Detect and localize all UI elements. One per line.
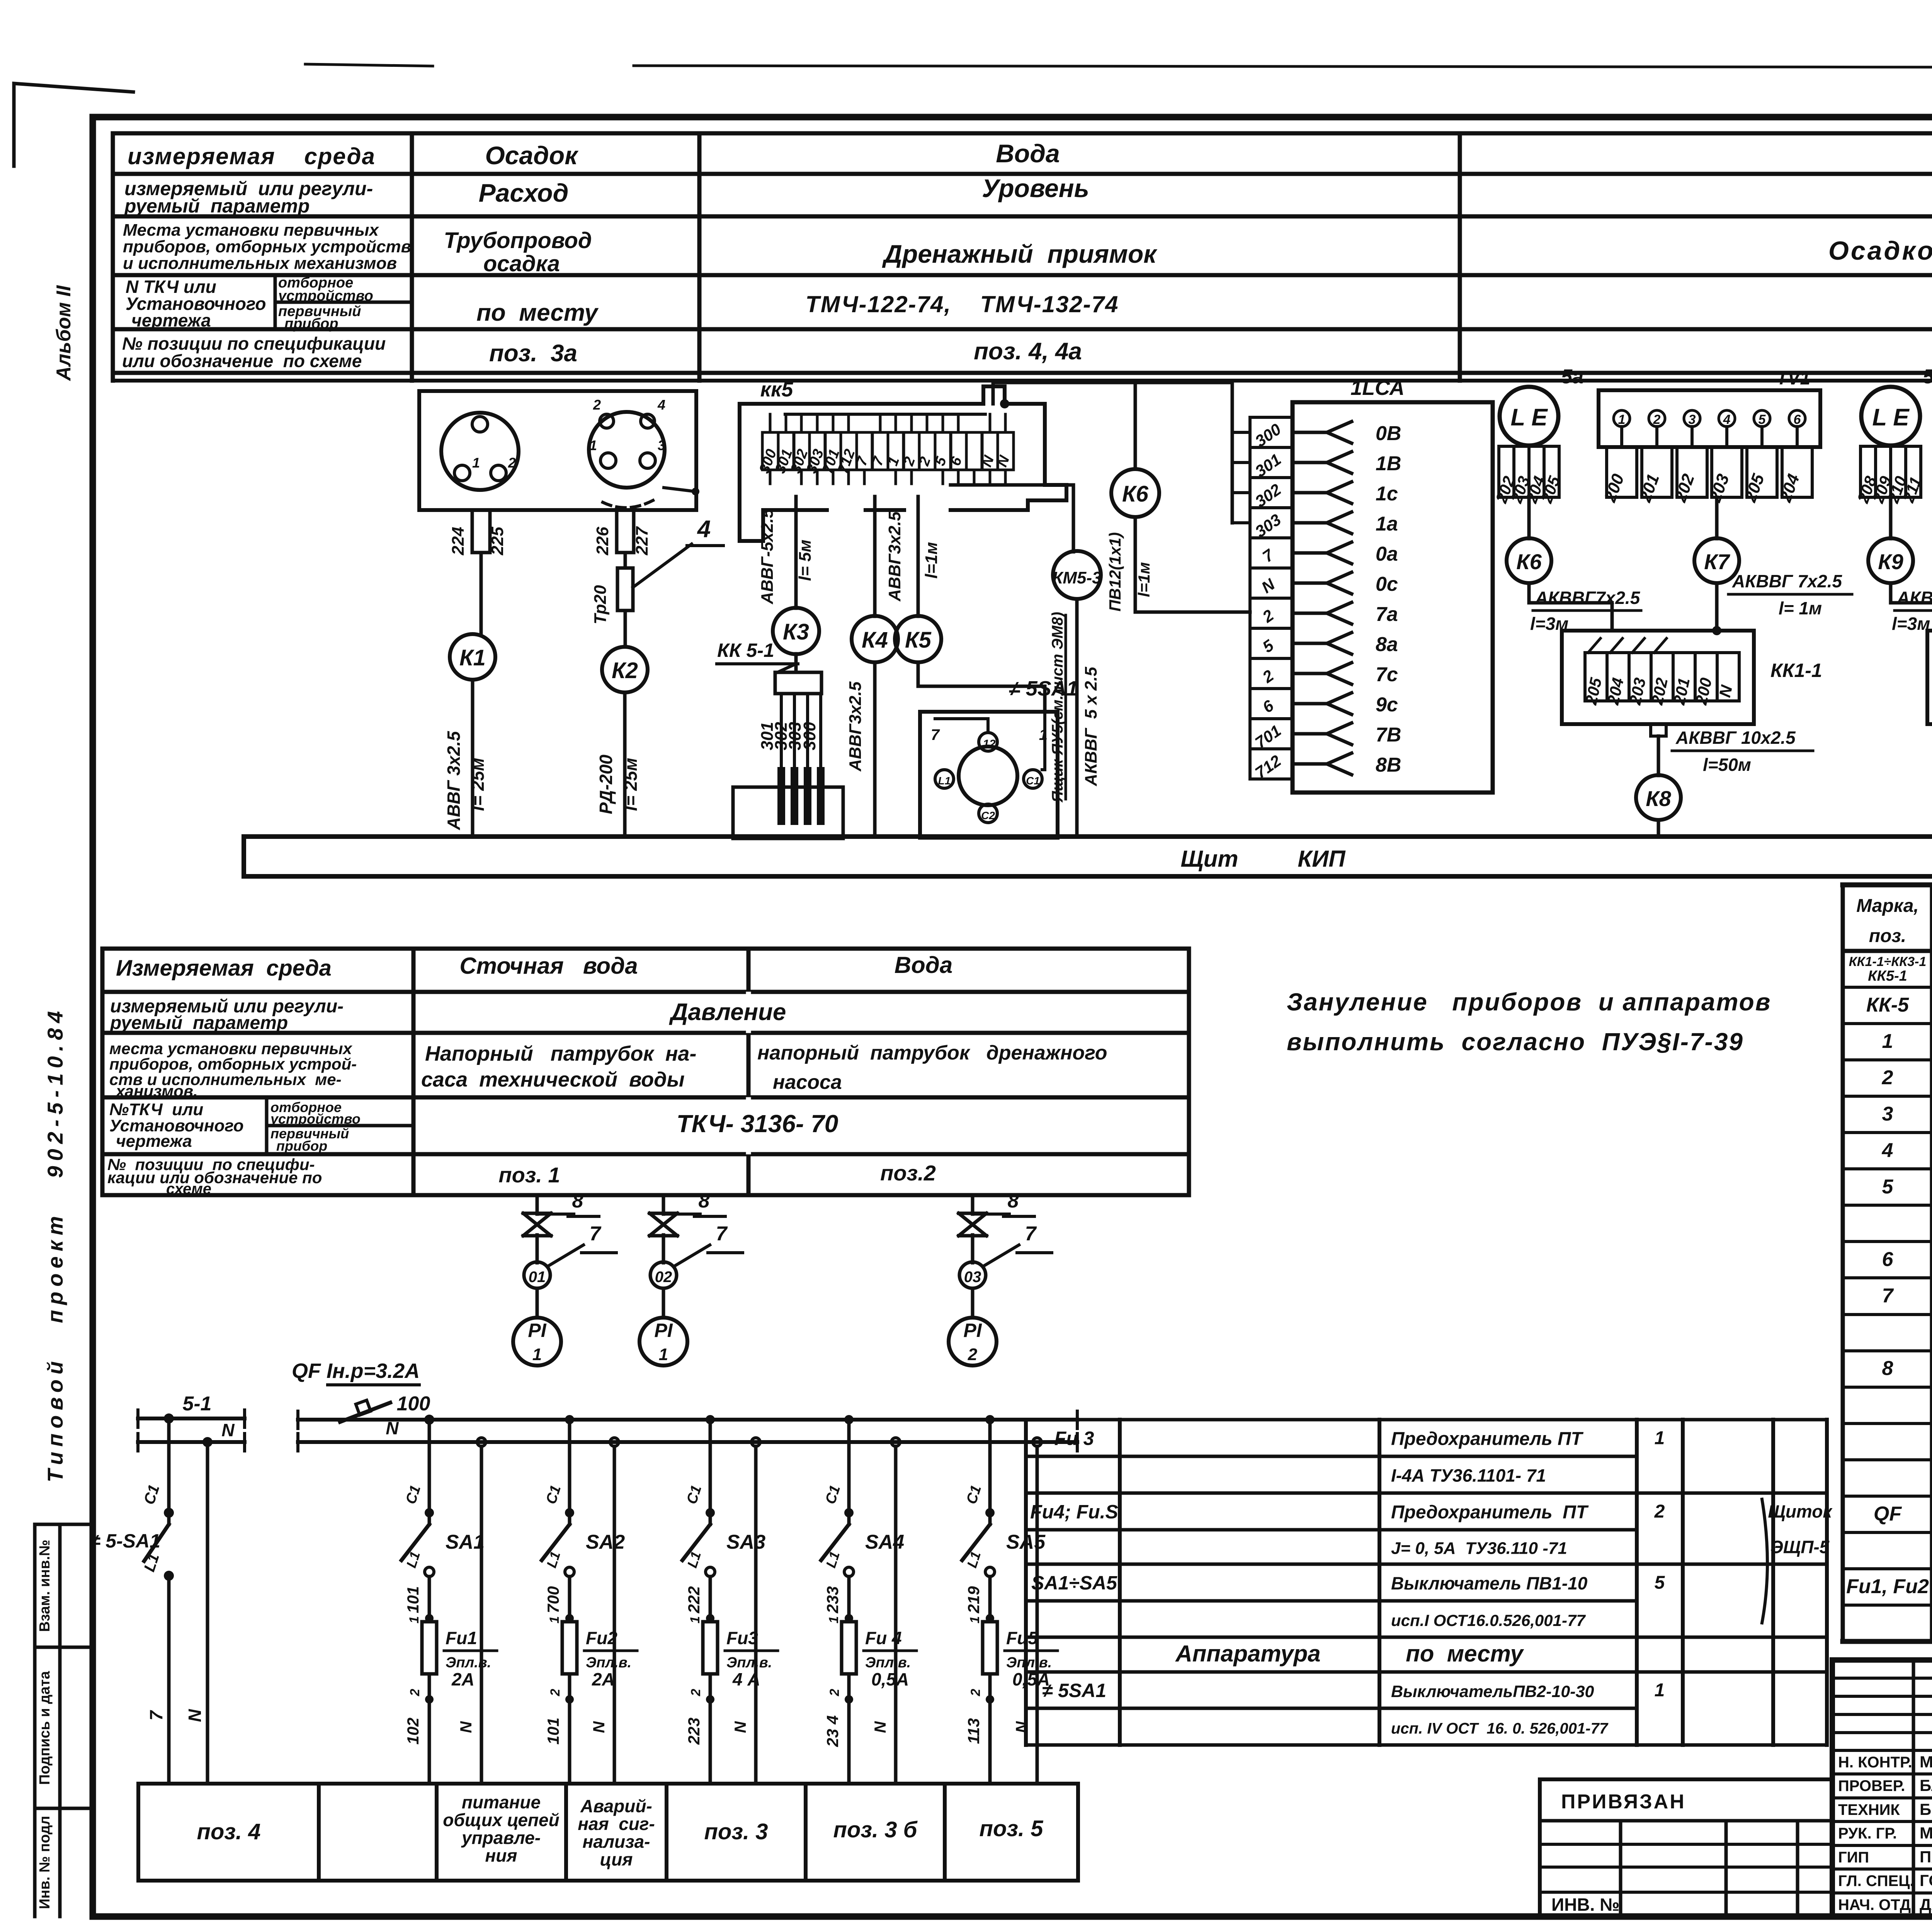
svg-text:N: N [457,1721,475,1733]
svg-text:АВВГ3х2.5: АВВГ3х2.5 [846,681,865,772]
sensor electrode block [733,787,843,838]
svg-text:1: 1 [589,437,597,453]
svg-text:222: 222 [685,1586,703,1614]
wire N drop 3 [752,1438,760,1446]
svg-text:БОКОВА: БОКОВА [1920,1800,1932,1818]
instrument PI 1 [639,1318,687,1366]
svg-text:4: 4 [697,516,711,543]
svg-text:МОСЕЕНКО: МОСЕЕНКО [1920,1824,1932,1842]
svg-text:АВВГ3х2.5: АВВГ3х2.5 [885,511,904,602]
svg-text:КК5-1: КК5-1 [1868,968,1907,984]
relay К6 [1507,538,1551,583]
svg-text:осадка: осадка [483,251,560,276]
svg-text:Напорный патрубок на-: Напорный патрубок на- [425,1042,696,1065]
svg-text:К1: К1 [459,645,486,670]
svg-text:4: 4 [1723,412,1731,427]
svg-text:Зануление приборов и аппара: Зануление приборов и аппаратов [1287,988,1771,1016]
wire КК1-1 to К8 [1657,736,1660,776]
svg-text:ДАНИЛОВ: ДАНИЛОВ [1920,1895,1932,1913]
svg-text:насоса: насоса [773,1071,842,1094]
svg-text:1а: 1а [1376,513,1398,535]
wire to Tr20 [624,553,627,568]
svg-text:1: 1 [1618,412,1626,427]
connector XP1 box [419,391,696,510]
wire N drop 5 [1033,1438,1041,1446]
svg-text:12: 12 [983,738,996,750]
wire connector XP2 dashed contour [603,500,653,508]
terminal strip under LE КК 2-1 [1861,446,1876,497]
wire К7 to КК1-1 [1715,583,1719,631]
svg-text:Fu1, Fu2: Fu1, Fu2 [1846,1575,1929,1598]
svg-text:6: 6 [1794,412,1801,427]
svg-text:Эпл.в.: Эпл.в. [586,1655,631,1671]
svg-text:Марка,: Марка, [1856,896,1919,916]
svg-text:кк5: кк5 [760,378,794,401]
svg-text:Выключатель ПВ1-10: Выключатель ПВ1-10 [1391,1573,1588,1594]
wire 226/227 stubs [615,510,619,553]
svg-text:ная сиг-: ная сиг- [578,1814,655,1834]
svg-text:МОСЕЕНКО: МОСЕЕНКО [1920,1753,1932,1771]
fuse Fu1 [422,1622,437,1674]
svg-text:1: 1 [968,1616,982,1624]
wire 1LCA trunk [1231,383,1234,523]
relay K3 [773,608,819,654]
svg-text:прибор: прибор [284,316,338,332]
svg-text:2: 2 [968,1345,978,1364]
svg-text:J= 0, 5А ТУ36.110 -71: J= 0, 5А ТУ36.110 -71 [1391,1539,1567,1558]
svg-text:Осадкоуплотнитель: Осадкоуплотнитель [1828,236,1932,265]
switch 5-SA1 feeder drop [167,1418,171,1509]
svg-text:общих цепей: общих цепей [443,1810,559,1830]
svg-text:Щит: Щит [1180,846,1238,872]
svg-text:по месту: по месту [1406,1641,1524,1667]
svg-text:5а: 5а [1923,366,1932,388]
svg-text:l= 1м: l= 1м [1779,598,1822,618]
svg-text:Сточная вода: Сточная вода [459,953,638,979]
svg-text:SА5: SА5 [1006,1531,1046,1553]
svg-text:1: 1 [827,1616,841,1624]
node panel Shchit KIP [244,837,1932,876]
node apparatus table [1026,1418,1637,1422]
svg-text:нализа-: нализа- [582,1832,650,1852]
relay К8 [1636,775,1681,820]
svg-text:ния: ния [485,1845,517,1866]
svg-text:Fu5: Fu5 [1006,1628,1038,1648]
svg-text:саса технической воды: саса технической воды [421,1068,685,1091]
wire to K2 [624,611,627,646]
terminal strip under LE КК1-1 [1499,446,1514,497]
svg-text:8: 8 [1008,1190,1019,1212]
relay K4 [852,616,898,662]
relay К9 [1868,538,1913,583]
svg-text:Осадок: Осадок [485,141,579,170]
svg-text:ПВ12(1х1): ПВ12(1х1) [1106,532,1124,611]
svg-text:ция: ция [600,1849,633,1869]
svg-text:1: 1 [1655,1428,1665,1449]
svg-text:7: 7 [716,1223,728,1245]
node sidebar stamp boxes [35,1523,93,1526]
svg-text:К3: К3 [783,619,809,645]
controller 1LCA terminals [1250,417,1293,447]
switch 5-SA1 blade [144,1524,169,1561]
svg-text:101: 101 [544,1718,562,1745]
svg-text:поз.2: поз.2 [880,1161,936,1185]
valve 03 drop [971,1195,975,1214]
svg-text:01: 01 [529,1269,546,1286]
svg-text:1: 1 [547,1616,562,1624]
wire K4 to panel [873,662,877,837]
instrument 03 [959,1262,986,1288]
svg-text:N: N [871,1721,889,1733]
svg-text:Предохранитель ПТ: Предохранитель ПТ [1391,1429,1583,1449]
svg-text:ПРОВЕР.: ПРОВЕР. [1838,1777,1905,1794]
svg-text:измеряемая среда: измеряемая среда [128,143,376,169]
node header table [113,131,1932,136]
valve 02 drop [662,1195,665,1214]
relay K1 [450,634,495,680]
svg-text:2А: 2А [451,1669,474,1689]
svg-text:7: 7 [931,726,940,743]
svg-text:Измеряемая среда: Измеряемая среда [116,956,332,981]
svg-text:Fu3: Fu3 [726,1628,758,1648]
instrument 01 [524,1262,550,1288]
svg-text:7с: 7с [1376,663,1398,686]
svg-text:схеме: схеме [166,1180,211,1197]
svg-text:К6: К6 [1516,549,1542,574]
wire K5 to switch 5SA1 [918,662,1045,712]
switch SА3 blade [682,1524,710,1560]
svg-text:9с: 9с [1376,694,1398,716]
switch SА3 drop [706,1415,715,1424]
svg-text:по месту: по месту [476,299,599,326]
svg-text:АВВГ 3х2.5: АВВГ 3х2.5 [444,731,464,830]
terminal box КК1-1 [1562,631,1754,724]
svg-text:Н. КОНТР.: Н. КОНТР. [1838,1754,1912,1771]
wire K1 to panel [471,680,474,837]
svg-text:ГИП: ГИП [1838,1849,1869,1866]
wire kk5 to KM5-3 [951,485,1073,552]
svg-text:исп.I ОСТ16.0.526,001-77: исп.I ОСТ16.0.526,001-77 [1391,1611,1586,1629]
switch SА4 blade [821,1524,849,1560]
wire K6 to 1LCA 7a [1135,517,1250,612]
svg-text:выполнить согласно ПУЭ§I-7-3: выполнить согласно ПУЭ§I-7-39 [1287,1028,1744,1056]
wire LE to К9 [1889,497,1893,539]
svg-text:поз. 3: поз. 3 [704,1819,768,1844]
svg-text:1LСА: 1LСА [1350,376,1405,400]
svg-text:Fu 3: Fu 3 [1054,1428,1094,1449]
instrument PI 1 [513,1318,561,1366]
wire TV to К7 [1715,497,1719,539]
svg-text:К2: К2 [612,658,638,683]
svg-text:ЭЩП-5: ЭЩП-5 [1770,1537,1830,1557]
svg-text:К9: К9 [1878,549,1903,574]
svg-text:N: N [185,1709,205,1722]
svg-text:напорный патрубок дренажног: напорный патрубок дренажного [757,1042,1107,1064]
switch 5SA1 rotor [959,747,1017,805]
svg-text:Эпл.в.: Эпл.в. [1006,1655,1052,1671]
svg-text:БАКШЕЕВА: БАКШЕЕВА [1920,1776,1932,1794]
svg-text:ТЕХНИК: ТЕХНИК [1838,1801,1900,1818]
svg-text:2: 2 [1882,1066,1893,1089]
breaker QF blade [340,1403,390,1422]
svg-text:226: 226 [593,527,612,556]
svg-text:кации или обозначение по: кации или обозначение по [107,1168,322,1187]
terminal block KK5 outline [740,386,1066,541]
svg-text:2: 2 [548,1689,563,1696]
svg-text:N: N [1012,1721,1031,1733]
relay K2 [602,647,648,692]
svg-text:КМ5-3: КМ5-3 [1052,568,1101,587]
wire KM5-3 to panel [1075,599,1079,837]
svg-text:l=1м: l=1м [922,542,941,579]
junction [202,1437,213,1447]
svg-text:КК-5: КК-5 [1866,994,1909,1016]
svg-text:8: 8 [699,1190,710,1212]
svg-text:l=1м: l=1м [1135,562,1153,597]
terminal box КК 2-1 [1927,631,1932,724]
svg-text:руемый параметр: руемый параметр [109,1013,288,1033]
svg-text:7: 7 [1882,1285,1894,1307]
svg-text:ханизмов.: ханизмов. [115,1082,198,1100]
svg-text:1: 1 [472,455,480,471]
wire N drop 2 [610,1438,619,1446]
switch SА5 drop [985,1415,995,1424]
svg-text:SА1: SА1 [446,1531,485,1553]
svg-text:Давление: Давление [669,999,786,1026]
svg-text:ГОЛЬЦМАН: ГОЛЬЦМАН [1920,1871,1932,1889]
switch SА1 drop [428,1420,431,1509]
svg-text:Места установки первичных: Места установки первичных [123,221,379,240]
svg-text:N: N [386,1418,399,1438]
svg-text:поз. 1: поз. 1 [498,1163,560,1187]
svg-text:Эпл.в.: Эпл.в. [446,1655,491,1671]
relay KM5-3 [1053,551,1101,599]
svg-text:Ящик ЯУ5(см.лист ЭМ8): Ящик ЯУ5(см.лист ЭМ8) [1049,612,1066,803]
relay К7 [1694,538,1739,583]
node privyazan block [1540,1777,1832,1781]
svg-text:8: 8 [1882,1357,1893,1380]
svg-text:АКВВГ7х2.5: АКВВГ7х2.5 [1535,588,1641,608]
svg-text:Трубопровод: Трубопровод [444,228,592,253]
wire [634,66,1932,68]
svg-text:Расход: Расход [479,179,569,207]
svg-text:Эпл.в.: Эпл.в. [726,1655,772,1671]
svg-text:Fu4; Fu.S: Fu4; Fu.S [1030,1501,1118,1523]
terminal box КК1-1 strip [1585,653,1607,701]
wire kk5 to K5 [917,497,920,616]
transmitter pins КК1-1 [1614,410,1630,427]
svg-text:Вода: Вода [996,139,1060,168]
svg-text:7: 7 [590,1223,602,1245]
svg-text:Щиток: Щиток [1768,1502,1833,1522]
svg-text:l= 25м: l= 25м [621,758,641,811]
svg-text:l= 25м: l= 25м [468,758,488,811]
svg-text:700: 700 [544,1586,562,1613]
svg-text:Типовой проект 902-5-10.84: Типовой проект 902-5-10.84 [43,1006,67,1483]
svg-text:1: 1 [407,1616,422,1624]
wire K2 to panel [623,692,627,837]
level sensor LE group КК1-1 [1500,387,1558,446]
svg-text:225: 225 [488,527,507,556]
svg-text:1: 1 [688,1616,702,1624]
svg-text:Тр20: Тр20 [591,585,610,624]
wire К6 to КК1-1 [1529,583,1612,631]
connector XP2 socket [589,412,665,488]
svg-text:5: 5 [1882,1175,1894,1198]
wire К9 to КК 2-1 [1891,583,1932,631]
instrument PI 2 [949,1318,997,1366]
svg-text:5-1: 5-1 [182,1393,211,1415]
svg-text:SА2: SА2 [586,1531,625,1553]
svg-text:устройство: устройство [277,288,373,304]
svg-text:0с: 0с [1376,573,1398,595]
svg-text:1В: 1В [1376,452,1401,475]
svg-text:4: 4 [1882,1139,1893,1162]
svg-text:6: 6 [1882,1248,1894,1270]
svg-text:7В: 7В [1376,724,1401,746]
svg-text:КК1-1: КК1-1 [1770,660,1822,681]
svg-text:2А: 2А [592,1669,615,1689]
svg-text:2: 2 [1654,1502,1665,1522]
svg-text:03: 03 [964,1269,981,1286]
node apparatus brace [1762,1499,1767,1623]
svg-text:С1: С1 [1026,775,1040,787]
svg-text:устройство: устройство [270,1111,361,1127]
svg-text:QF: QF [1874,1503,1902,1525]
node destination boxes [138,1782,1078,1786]
wire N drop 4 [891,1438,900,1446]
svg-text:102: 102 [404,1718,422,1745]
svg-text:1: 1 [659,1345,668,1364]
svg-text:233: 233 [823,1586,842,1614]
svg-text:≠ 5SА1: ≠ 5SА1 [1009,677,1078,700]
svg-text:I-4А ТУ36.1101- 71: I-4А ТУ36.1101- 71 [1391,1466,1546,1486]
svg-text:Iн.р=3.2А: Iн.р=3.2А [327,1359,420,1383]
switch SА2 drop [565,1415,574,1424]
wire KK5-1 to electrodes [780,694,783,769]
svg-text:К4: К4 [862,628,888,653]
svg-text:l=3м: l=3м [1892,614,1930,634]
svg-text:ГЛ. СПЕЦ.: ГЛ. СПЕЦ. [1838,1872,1914,1889]
svg-text:РУК. ГР.: РУК. ГР. [1838,1825,1897,1842]
fuse Fu 4 [842,1622,856,1674]
svg-text:К7: К7 [1704,549,1730,574]
svg-text:2: 2 [689,1689,703,1696]
wire N drop 1 [477,1438,486,1446]
svg-text:100: 100 [397,1393,430,1415]
svg-text:поз. 3а: поз. 3а [489,340,577,367]
svg-text:поз. 4, 4а: поз. 4, 4а [974,338,1082,365]
svg-text:Вода: Вода [895,952,952,978]
svg-text:ВыключательПВ2-10-30: ВыключательПВ2-10-30 [1391,1682,1594,1701]
wire to K6 relay [1134,383,1137,469]
svg-text:АКВВГ 5 х 2.5: АКВВГ 5 х 2.5 [1082,667,1100,786]
svg-text:227: 227 [633,526,651,556]
svg-text:К5: К5 [905,628,932,653]
terminal box KK5-1 [775,672,821,694]
svg-text:l= 5м: l= 5м [796,539,815,581]
wire N to poz4 [206,1442,209,1784]
switch SА5 blade [962,1524,990,1560]
svg-text:ТМЧ-122-74, ТМЧ-132-74: ТМЧ-122-74, ТМЧ-132-74 [805,291,1119,317]
svg-text:РI: РI [963,1320,982,1341]
svg-text:1: 1 [1655,1680,1665,1701]
svg-text:питание: питание [462,1792,541,1812]
svg-text:0,5А: 0,5А [1012,1669,1050,1689]
svg-text:SА4: SА4 [865,1531,904,1553]
switch SА2 blade [542,1524,570,1560]
wire kk5 to K4 [873,497,877,616]
controller 1LCA box [1293,402,1493,793]
svg-text:чертежа: чертежа [116,1132,192,1151]
svg-text:Уровень: Уровень [982,174,1089,202]
svg-text:1: 1 [1882,1030,1893,1053]
svg-text:5а: 5а [1561,366,1583,388]
fuse Fu2 [562,1622,577,1674]
svg-text:РI: РI [528,1320,546,1341]
svg-text:113: 113 [964,1718,983,1744]
fuse Fu5 [983,1622,997,1674]
svg-text:Взам. инв.№: Взам. инв.№ [37,1540,53,1632]
svg-text:300: 300 [800,722,819,750]
svg-text:≠ 5SА1: ≠ 5SА1 [1042,1680,1106,1701]
svg-text:8: 8 [572,1190,583,1212]
svg-text:КК 5-1: КК 5-1 [717,639,774,661]
svg-text:223: 223 [685,1718,703,1745]
svg-text:2: 2 [593,397,601,413]
svg-text:101: 101 [404,1586,422,1613]
svg-text:SА3: SА3 [726,1531,765,1553]
svg-text:РI: РI [654,1320,673,1341]
svg-text:2: 2 [508,455,516,471]
wire to poz4 [167,1576,171,1784]
svg-text:ТКЧ- 3136- 70: ТКЧ- 3136- 70 [677,1110,838,1138]
node title block [1832,1660,1932,1917]
svg-text:7а: 7а [1376,603,1398,626]
transmitter box TV КК1-1 [1599,390,1820,447]
svg-text:Fu1: Fu1 [446,1628,477,1648]
svg-text:0а: 0а [1376,543,1398,565]
svg-text:АКВВГ7х2.5: АКВВГ7х2.5 [1896,588,1932,608]
svg-text:7: 7 [146,1710,166,1721]
svg-text:КИП: КИП [1298,846,1346,872]
svg-text:АКВВГ 10х2.5: АКВВГ 10х2.5 [1675,728,1796,748]
svg-text:Подпись и дата: Подпись и дата [37,1671,53,1785]
svg-text:прибор: прибор [276,1138,327,1154]
svg-text:3: 3 [1882,1103,1893,1125]
svg-text:≠ 5-SА1: ≠ 5-SА1 [90,1530,160,1552]
svg-text:l=50м: l=50м [1703,755,1751,775]
svg-text:224: 224 [449,527,468,555]
svg-text:чертежа: чертежа [131,310,211,330]
wire inside 5SA1 [1042,712,1045,770]
svg-text:L Е: L Е [1510,404,1548,431]
svg-text:РД-200: РД-200 [596,754,616,814]
svg-text:поз. 3 б: поз. 3 б [833,1817,918,1842]
svg-text:7: 7 [1025,1223,1037,1245]
svg-text:АКВВГ 7х2.5: АКВВГ 7х2.5 [1732,571,1842,591]
svg-text:Дренажный приямок: Дренажный приямок [882,240,1158,268]
svg-text:руемый параметр: руемый параметр [124,195,310,217]
svg-text:приборов, отборных устройств: приборов, отборных устройств [123,237,411,256]
svg-text:8а: 8а [1376,633,1398,656]
svg-text:3: 3 [1689,412,1696,427]
wire kk5 to 1LCA bus [993,383,1232,404]
fuse Fu3 [703,1622,718,1674]
svg-text:4: 4 [657,397,665,413]
svg-text:219: 219 [964,1586,983,1614]
relay K5 [895,616,941,662]
